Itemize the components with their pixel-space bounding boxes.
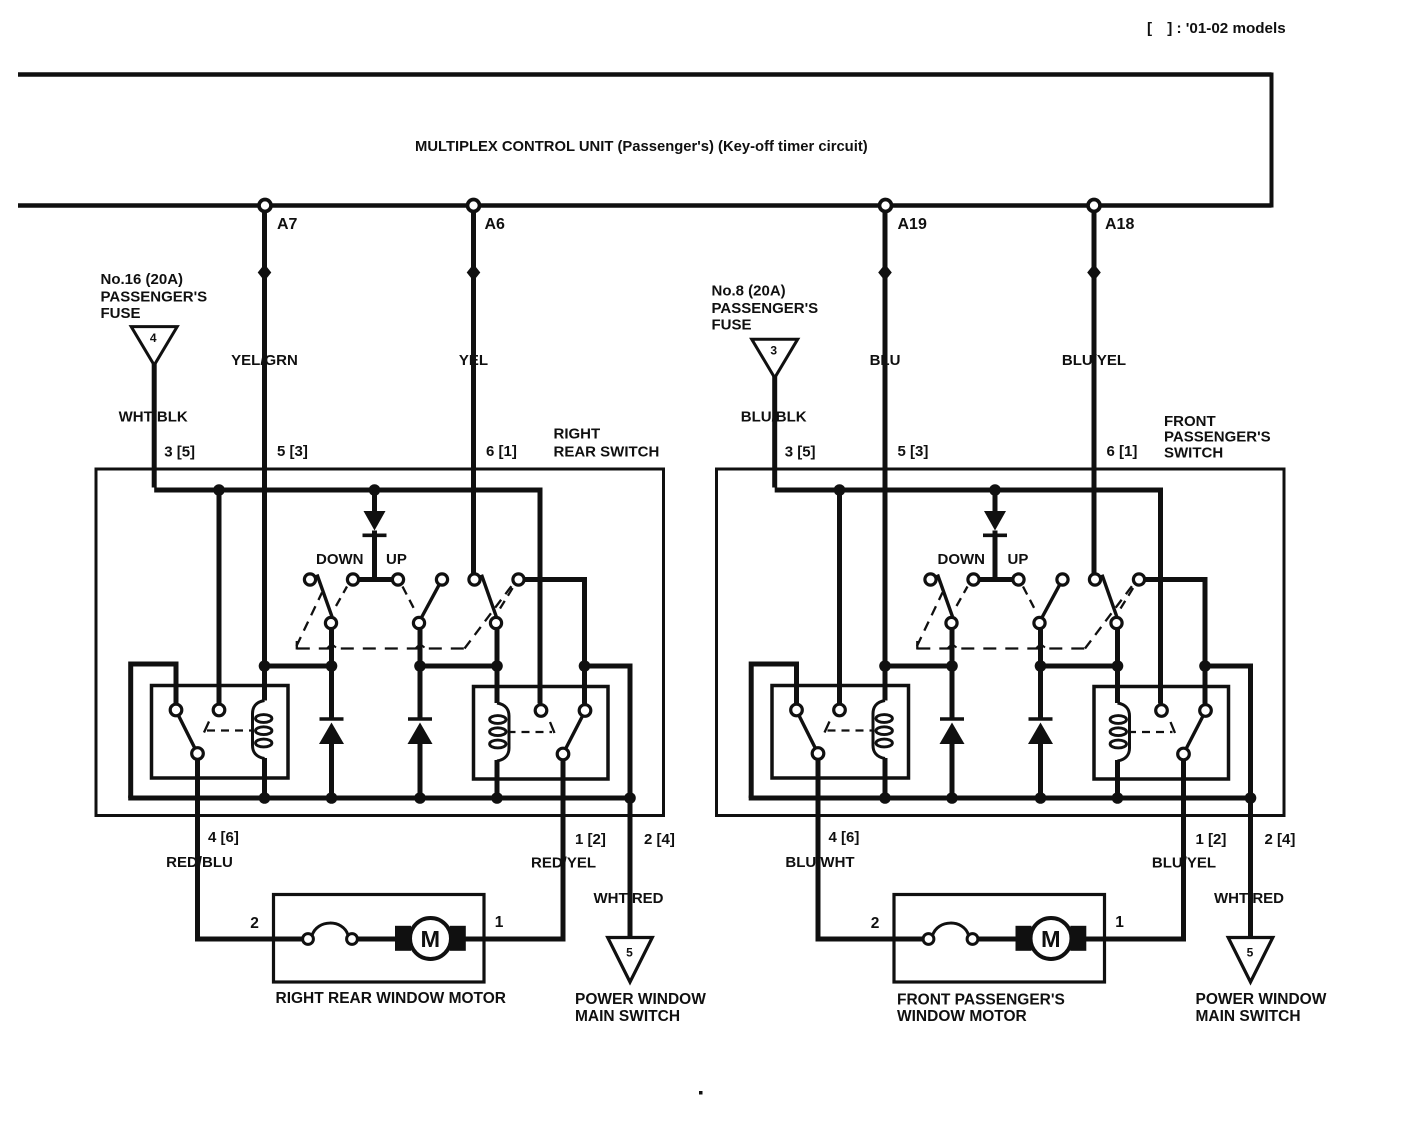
svg-text:WHT/BLK: WHT/BLK xyxy=(119,409,188,426)
node A19 terminal circle on control unit xyxy=(880,200,892,212)
wire motor right brush to box edge xyxy=(1085,937,1105,942)
junction dot bus to down-diode xyxy=(989,484,1001,496)
relay K2 armature blade xyxy=(566,716,583,748)
relay K2 coil xyxy=(490,703,509,761)
svg-text:M: M xyxy=(1041,926,1061,952)
junction dot D2 anode to bottom bus xyxy=(1035,792,1047,804)
relay K1 coil xyxy=(873,701,892,759)
junction dot coil K2 to bottom bus xyxy=(1112,792,1124,804)
switch blade s1 alternate position (dashed) xyxy=(957,587,968,607)
svg-text:FUSE: FUSE xyxy=(712,317,752,334)
relay K1 upper-middle contact xyxy=(834,704,846,716)
contact c3 UP xyxy=(1013,574,1024,585)
svg-text:5 [3]: 5 [3] xyxy=(898,443,929,460)
relay K1 box xyxy=(152,686,289,779)
wire pin 1 [2] BLU/YEL relay K2 common to motor terminal 1 xyxy=(1102,761,1184,940)
relay K2 actuation dashed link xyxy=(508,722,555,733)
wire pivot3 down to relay K2 coil xyxy=(1115,628,1120,703)
junction dot D2 anode to bottom bus xyxy=(414,792,426,804)
svg-text:UP: UP xyxy=(386,551,407,568)
switch blade s2 (pivot2 to c4) xyxy=(422,585,440,618)
relay K1 upper-left contact xyxy=(791,704,803,716)
wire branch to pin 2 corner xyxy=(585,666,631,798)
middle rail segment BLU-net (coil K1 / diode D1 / pivot1) xyxy=(885,664,952,669)
svg-text:PASSENGER'S: PASSENGER'S xyxy=(712,300,819,317)
relay K1 upper-middle contact xyxy=(213,704,225,716)
relay K2 coil xyxy=(1110,703,1129,761)
mechanical linkage dashed bar xyxy=(917,586,1132,650)
svg-text:2: 2 xyxy=(871,915,880,932)
pivot contact s1 xyxy=(325,617,336,628)
wire pin 1 [2] RED/YEL relay K2 common to motor terminal 1 xyxy=(481,761,563,940)
junction dot rail at pivot3/coil K2 xyxy=(1112,660,1124,672)
svg-text:WINDOW MOTOR: WINDOW MOTOR xyxy=(897,1008,1027,1025)
svg-text:DOWN: DOWN xyxy=(938,551,986,568)
relay K2 common lower contact xyxy=(1178,748,1190,760)
junction dot coil K2 to bottom bus xyxy=(491,792,503,804)
switch blade s3 alternate position (dashed) xyxy=(1121,585,1136,609)
junction dot rail at pivot3/coil K2 xyxy=(491,660,503,672)
junction dot rail at pivot1/diode D1 xyxy=(326,660,338,672)
wire pin 4 [6] BLU/WHT relay K1 common to motor terminal 2 xyxy=(818,759,897,939)
junction dot rail at pivot2/diode D2 xyxy=(414,660,426,672)
svg-text:4 [6]: 4 [6] xyxy=(208,829,239,846)
svg-text:UP: UP xyxy=(1008,551,1029,568)
wire relay K2 coil bottom to bottom bus xyxy=(495,760,500,798)
motor M FRONT PASSENGER'S WINDOW MOTOR xyxy=(1016,918,1087,959)
diode D2 (cathode bar up) xyxy=(1029,717,1053,721)
wire pivot2 down through rail to diode D2 xyxy=(1038,628,1043,719)
switch blade s3 alternate position (dashed) xyxy=(500,585,515,609)
svg-text:3 [5]: 3 [5] xyxy=(785,444,816,461)
contact c4 xyxy=(436,574,447,585)
svg-text:PASSENGER'S: PASSENGER'S xyxy=(1164,429,1271,446)
junction dot bus to down-diode xyxy=(369,484,381,496)
svg-text:5: 5 xyxy=(1247,946,1254,960)
contact c2 DOWN xyxy=(347,574,358,585)
bottom common bus xyxy=(128,796,630,801)
svg-text:BLU/YEL: BLU/YEL xyxy=(1152,855,1216,872)
svg-text:A7: A7 xyxy=(277,216,298,233)
svg-text:BLU/YEL: BLU/YEL xyxy=(1062,352,1126,369)
pivot contact s2 xyxy=(413,617,424,628)
multiplex control unit box (open left side) xyxy=(18,73,1272,208)
contact c5 xyxy=(1089,574,1100,585)
svg-text:2 [4]: 2 [4] xyxy=(644,831,675,848)
svg-text:WHT/RED: WHT/RED xyxy=(594,890,664,907)
svg-text:SWITCH: SWITCH xyxy=(1164,445,1223,462)
relay K1 box xyxy=(772,686,909,779)
wire relay K2 coil bottom to bottom bus xyxy=(1115,760,1120,798)
relay K2 box xyxy=(474,687,609,780)
svg-text:YEL/GRN: YEL/GRN xyxy=(231,352,298,369)
svg-text:RED/YEL: RED/YEL xyxy=(531,855,596,872)
junction dot rail at coil feed xyxy=(879,660,891,672)
motor box FRONT PASSENGER'S WINDOW MOTOR xyxy=(894,895,1105,983)
wire BLU/YEL from A18 down to contact c5 xyxy=(1092,211,1097,575)
svg-text:1 [2]: 1 [2] xyxy=(1196,831,1227,848)
wire pin 2 [4] WHT/RED down to main switch xyxy=(628,798,633,938)
wire branch to pin 2 corner xyxy=(1205,666,1251,798)
switch blade s1 alternate position (dashed) xyxy=(336,587,347,607)
svg-text:3 [5]: 3 [5] xyxy=(164,444,195,461)
switch blade s3 (c5 to pivot3) xyxy=(482,575,497,617)
contact c1 xyxy=(304,574,315,585)
switch blade s2 alternate position (dashed) xyxy=(1023,587,1036,612)
fuse symbol triangle 3 xyxy=(752,339,798,378)
fuse symbol triangle 4 xyxy=(131,327,177,366)
svg-text:1: 1 xyxy=(495,914,504,931)
hook wire relay K1 upper-left contact to bottom bus xyxy=(131,664,176,798)
arrow on BLU/YEL wire xyxy=(1087,264,1101,281)
svg-text:FRONT PASSENGER'S: FRONT PASSENGER'S xyxy=(897,992,1065,1009)
contact c6 xyxy=(1133,574,1144,585)
wire from bus down to relay K1 upper-middle contact xyxy=(217,490,222,704)
wire from bus down to relay K1 upper-middle contact xyxy=(837,490,842,704)
wire pin 2 [4] WHT/RED down to main switch xyxy=(1248,798,1253,938)
wire pivot2 down through rail to diode D2 xyxy=(418,628,423,719)
mechanical linkage dashed bar xyxy=(297,586,512,650)
main switch connector triangle 5 xyxy=(1228,938,1273,983)
contact c1 xyxy=(925,574,936,585)
power bus wire from pin 3 across top of switch xyxy=(154,490,540,704)
junction dot D1 anode to bottom bus xyxy=(946,792,958,804)
wire BLU from A19 down to relay K1 coil xyxy=(883,211,888,701)
contact c6 xyxy=(513,574,524,585)
svg-text:6 [1]: 6 [1] xyxy=(486,443,517,460)
hook wire relay K1 upper-left contact to bottom bus xyxy=(751,664,796,798)
relay K2 upper-right contact xyxy=(1200,705,1212,717)
switch blade s1 (c1 to pivot1) xyxy=(938,575,953,617)
bottom common bus xyxy=(749,796,1251,801)
switch box FRONT PASSENGER'S SWITCH xyxy=(717,469,1285,816)
contact c4 xyxy=(1057,574,1068,585)
diode D3 rocker feed (points down) with wire xyxy=(993,490,998,512)
relay K2 armature blade xyxy=(1187,716,1204,748)
contact c3 UP xyxy=(392,574,403,585)
svg-text:5 [3]: 5 [3] xyxy=(277,443,308,460)
tie bar between contacts c2 and c3 xyxy=(979,577,1014,582)
svg-text:2 [4]: 2 [4] xyxy=(1265,831,1296,848)
svg-text:MAIN SWITCH: MAIN SWITCH xyxy=(1196,1008,1301,1025)
svg-text:PASSENGER'S: PASSENGER'S xyxy=(101,288,208,305)
diode D2 (cathode bar up) xyxy=(408,717,432,721)
relay K2 common lower contact xyxy=(557,748,569,760)
junction dot on c6 branch at middle rail xyxy=(579,660,591,672)
svg-text:POWER WINDOW: POWER WINDOW xyxy=(1196,991,1327,1008)
relay K2 actuation dashed link xyxy=(1128,722,1175,733)
pivot contact s2 xyxy=(1034,617,1045,628)
wire pivot3 down to relay K2 coil xyxy=(495,628,500,703)
junction dot rail at coil feed xyxy=(259,660,271,672)
wire relay K1 coil bottom to bottom bus xyxy=(883,758,888,798)
svg-text:1 [2]: 1 [2] xyxy=(575,831,606,848)
contact c2 DOWN xyxy=(968,574,979,585)
svg-text:1: 1 xyxy=(1115,914,1124,931)
relay K2 upper-middle contact xyxy=(535,705,547,717)
svg-text:MULTIPLEX CONTROL UNIT (Passen: MULTIPLEX CONTROL UNIT (Passenger's) (Ke… xyxy=(415,139,868,155)
node A6 terminal circle on control unit xyxy=(468,200,480,212)
junction dot coil K1 to bottom bus xyxy=(879,792,891,804)
svg-text:BLU/BLK: BLU/BLK xyxy=(741,409,807,426)
svg-text:WHT/RED: WHT/RED xyxy=(1214,890,1284,907)
wire BLU/BLK from fuse to switch pin 3 xyxy=(772,376,777,487)
svg-text:No.8 (20A): No.8 (20A) xyxy=(712,283,786,300)
svg-text:A19: A19 xyxy=(898,216,927,233)
node A18 terminal circle on control unit xyxy=(1088,200,1100,212)
wire pivot1 down through rail to diode D1 xyxy=(329,628,334,719)
relay K1 coil xyxy=(253,701,272,759)
svg-text:No.16 (20A): No.16 (20A) xyxy=(101,271,184,288)
svg-text:3: 3 xyxy=(770,344,777,358)
wire motor right brush to box edge xyxy=(464,937,484,942)
relay K1 actuation dashed link xyxy=(825,722,873,733)
junction dot rail at pivot2/diode D2 xyxy=(1035,660,1047,672)
wire YEL from A6 down to contact c5 xyxy=(471,211,476,575)
junction dot coil K1 to bottom bus xyxy=(259,792,271,804)
svg-text:6 [1]: 6 [1] xyxy=(1107,443,1138,460)
motor connector contacts and arc xyxy=(274,923,398,944)
svg-text:RIGHT REAR WINDOW MOTOR: RIGHT REAR WINDOW MOTOR xyxy=(276,990,506,1007)
wire pivot1 down through rail to diode D1 xyxy=(950,628,955,719)
wire relay K1 coil bottom to bottom bus xyxy=(262,758,267,798)
junction dot pin2 wire meets bottom bus xyxy=(624,792,636,804)
svg-text:MAIN SWITCH: MAIN SWITCH xyxy=(575,1008,680,1025)
switch box RIGHT REAR SWITCH xyxy=(96,469,664,816)
middle rail segment YEL/GRN-net (coil K1 / diode D1 / pivot1) xyxy=(265,664,332,669)
relay K1 armature blade xyxy=(799,716,815,748)
svg-text:YEL: YEL xyxy=(459,352,488,369)
wire c6 to relay K2 upper contact and pin 2 branch xyxy=(1144,580,1205,704)
relay K2 box xyxy=(1094,687,1229,780)
motor box RIGHT REAR WINDOW MOTOR xyxy=(274,895,485,983)
svg-text:BLU: BLU xyxy=(870,352,901,369)
middle rail segment (pivot2 / diode D2 / coil K2) xyxy=(1041,664,1118,669)
relay K1 upper-left contact xyxy=(170,704,182,716)
svg-text:M: M xyxy=(421,926,441,952)
svg-text:REAR SWITCH: REAR SWITCH xyxy=(554,444,660,461)
junction dot bus to relay K1 fixed contact feed xyxy=(834,484,846,496)
power bus wire from pin 3 across top of switch xyxy=(775,490,1161,704)
relay K1 actuation dashed link xyxy=(204,722,252,733)
arrow on YEL/GRN wire xyxy=(258,264,272,281)
svg-text:4: 4 xyxy=(150,331,157,345)
svg-text:4 [6]: 4 [6] xyxy=(829,829,860,846)
relay K1 common lower contact xyxy=(812,748,824,760)
motor connector contacts and arc xyxy=(894,923,1018,944)
switch blade s2 alternate position (dashed) xyxy=(403,587,416,612)
svg-text:BLU/WHT: BLU/WHT xyxy=(785,854,854,871)
wire WHT/BLK from fuse to switch pin 3 xyxy=(152,364,157,488)
junction dot on c6 branch at middle rail xyxy=(1199,660,1211,672)
junction dot bus to relay K1 fixed contact feed xyxy=(213,484,225,496)
svg-text:POWER WINDOW: POWER WINDOW xyxy=(575,991,706,1008)
node A7 terminal circle on control unit xyxy=(259,200,271,212)
svg-text:5: 5 xyxy=(626,946,633,960)
diode D3 rocker feed (points down) with wire xyxy=(372,490,377,512)
svg-text:FUSE: FUSE xyxy=(101,305,141,322)
wire c6 to relay K2 upper contact and pin 2 branch xyxy=(524,580,585,704)
relay K1 common lower contact xyxy=(192,748,204,760)
wire pin 4 [6] RED/BLU relay K1 common to motor terminal 2 xyxy=(198,759,277,939)
pivot contact s1 xyxy=(946,617,957,628)
switch blade s1 (c1 to pivot1) xyxy=(317,575,332,617)
junction dot rail at pivot1/diode D1 xyxy=(946,660,958,672)
pivot contact s3 xyxy=(1111,617,1122,628)
middle rail segment (pivot2 / diode D2 / coil K2) xyxy=(420,664,497,669)
svg-text:A6: A6 xyxy=(485,216,506,233)
junction dot D1 anode to bottom bus xyxy=(326,792,338,804)
diode D1 (cathode bar up) xyxy=(320,717,344,721)
main switch connector triangle 5 xyxy=(608,938,653,983)
relay K1 armature blade xyxy=(179,716,195,748)
svg-text:DOWN: DOWN xyxy=(316,551,364,568)
pivot contact s3 xyxy=(490,617,501,628)
arrow on YEL wire xyxy=(467,264,481,281)
relay K2 upper-right contact xyxy=(579,705,591,717)
diode D1 (cathode bar up) xyxy=(940,717,964,721)
contact c5 xyxy=(469,574,480,585)
junction dot pin2 wire meets bottom bus xyxy=(1245,792,1257,804)
arrow on BLU wire xyxy=(878,264,892,281)
switch blade s2 (pivot2 to c4) xyxy=(1042,585,1060,618)
motor M RIGHT REAR WINDOW MOTOR xyxy=(395,918,466,959)
switch blade s3 (c5 to pivot3) xyxy=(1102,575,1117,617)
svg-text:RED/BLU: RED/BLU xyxy=(166,854,233,871)
stray scan speck xyxy=(699,1091,703,1095)
wire YEL/GRN from A7 down to relay K1 coil xyxy=(262,211,267,701)
svg-text:RIGHT: RIGHT xyxy=(554,426,601,443)
svg-text:[ ] : '01-02 models: [ ] : '01-02 models xyxy=(1147,20,1286,37)
svg-text:2: 2 xyxy=(250,915,259,932)
tie bar between contacts c2 and c3 xyxy=(358,577,393,582)
relay K2 upper-middle contact xyxy=(1156,705,1168,717)
svg-text:FRONT: FRONT xyxy=(1164,413,1216,430)
svg-text:A18: A18 xyxy=(1105,216,1134,233)
